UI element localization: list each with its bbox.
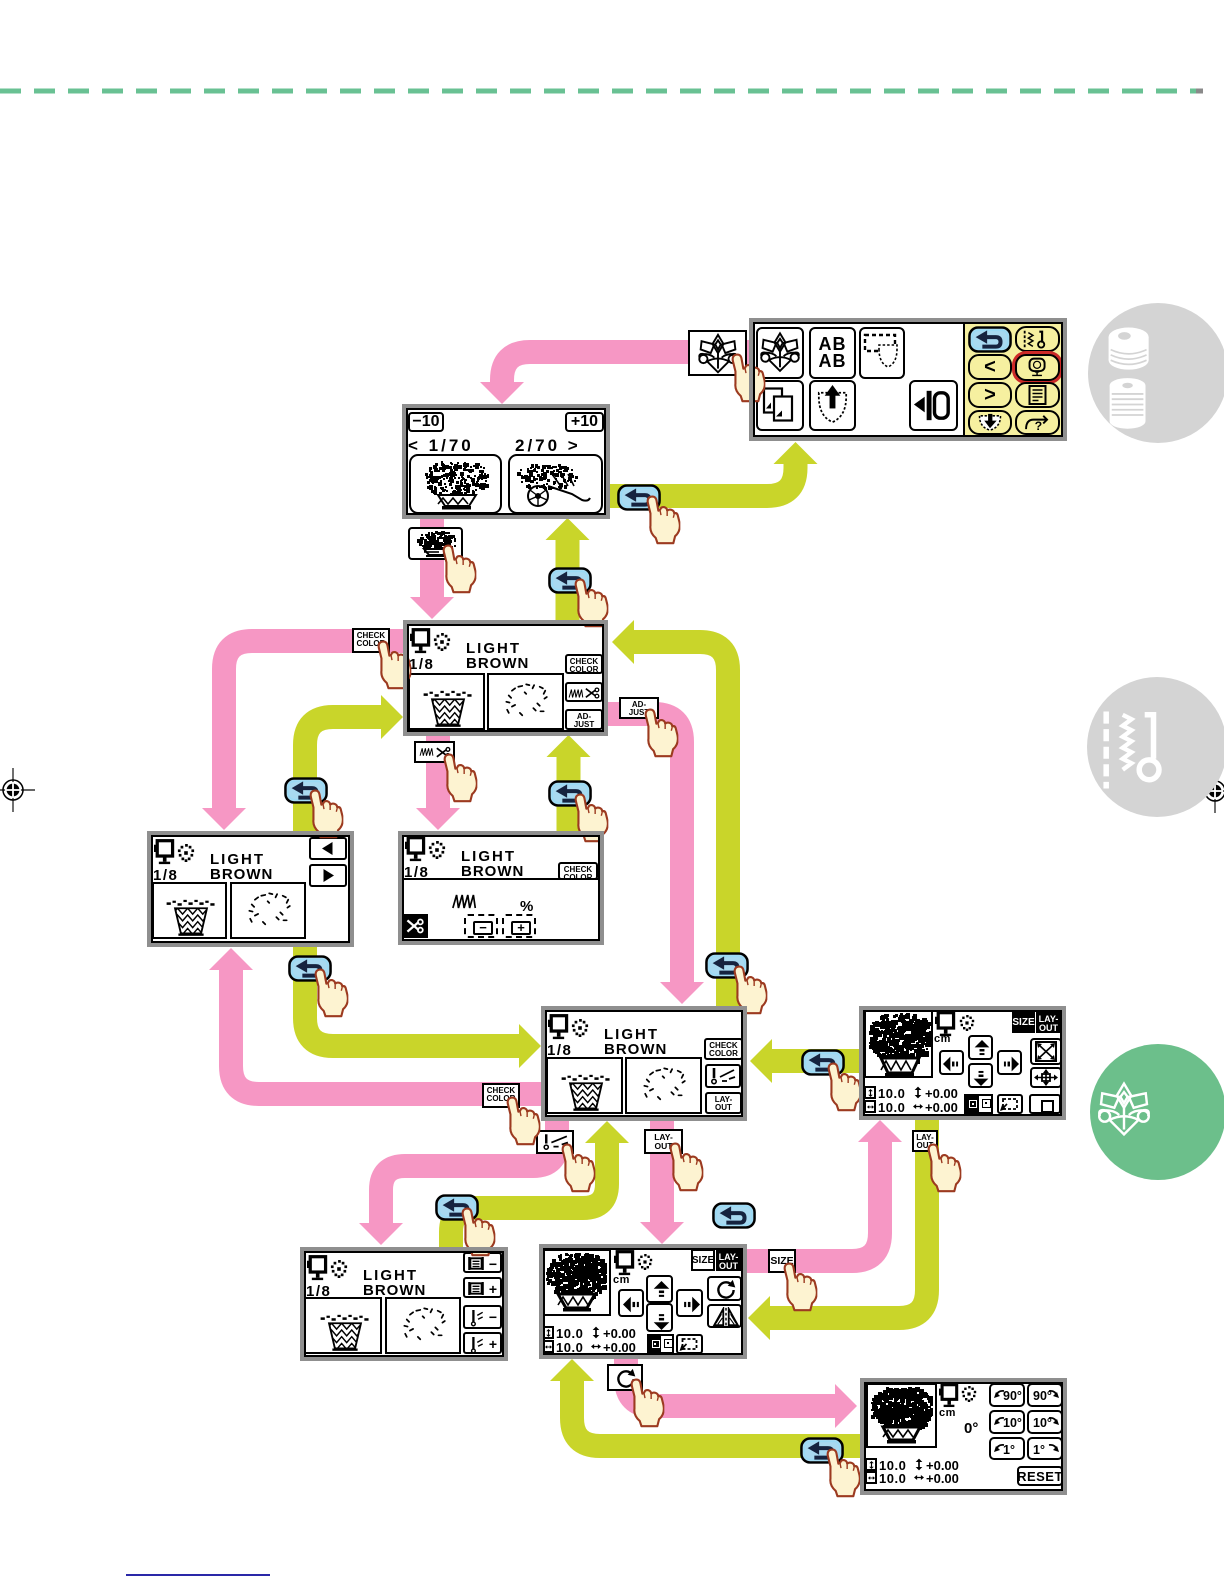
arrow press layout layoutcolor-to-layout bbox=[640, 1119, 684, 1244]
arrow press trim color-to-trim bbox=[416, 734, 460, 830]
arrow back move-to-layoutcolor bbox=[750, 1039, 861, 1083]
thumb layout small bbox=[912, 1130, 938, 1152]
btn check color (lower) bbox=[482, 1083, 520, 1108]
thumb basket bbox=[408, 527, 463, 560]
arrow back colorlist-to-layoutcolor bbox=[305, 945, 541, 1068]
btn size bbox=[768, 1249, 796, 1273]
thumb lotus bbox=[688, 330, 747, 376]
arrow back density-to-layoutcolor bbox=[451, 1121, 629, 1249]
screen color-layout bbox=[541, 1006, 747, 1121]
screen trim bbox=[398, 831, 604, 945]
arrow press checkcolor color-to-list bbox=[202, 641, 405, 830]
thumb layout bbox=[644, 1129, 683, 1154]
screen menu bbox=[749, 318, 1067, 441]
back button at 800,1437 bbox=[800, 1437, 844, 1464]
screen color bbox=[403, 620, 608, 736]
arrow press pattern-thumb menu-to-pattern bbox=[480, 352, 752, 404]
thumb rotate bbox=[607, 1364, 643, 1391]
screen density bbox=[300, 1247, 508, 1361]
arrow press needle layoutcolor-to-density bbox=[359, 1119, 557, 1245]
arrow back rotate-to-layout bbox=[550, 1359, 862, 1446]
arrow back colorlist-to-color bbox=[305, 695, 403, 833]
back button at 435,1194 bbox=[435, 1194, 479, 1221]
arrow back size-to-layout bbox=[748, 1118, 927, 1340]
arrow press basket pattern-to-color bbox=[410, 517, 454, 619]
back button at 617,484 bbox=[617, 484, 661, 511]
thumb needle bbox=[536, 1130, 574, 1154]
back button at 801,1049 bbox=[801, 1049, 845, 1076]
arrow back trim-to-color bbox=[547, 735, 591, 833]
screen pattern-select bbox=[402, 404, 610, 519]
arrow back pattern-to-menu bbox=[610, 442, 818, 496]
btn adjust bbox=[619, 697, 659, 719]
screen layout bbox=[539, 1244, 747, 1359]
back button at 548,567 bbox=[548, 567, 592, 594]
back button at 548,780 bbox=[548, 780, 592, 807]
thumb trim bbox=[414, 741, 455, 763]
back button at 284,777 bbox=[284, 777, 328, 804]
back button at 288,955 bbox=[288, 955, 332, 982]
arrow press checkcolor layoutcolor-to-list bbox=[209, 948, 543, 1094]
screen color-list bbox=[147, 831, 354, 947]
arrow press rotate layout-to-rotate bbox=[626, 1357, 857, 1428]
arrow press adjust color-to-layoutcolor bbox=[606, 714, 704, 1004]
arrow back layoutcolor-to-color bbox=[612, 620, 728, 1008]
screen rotate bbox=[860, 1378, 1067, 1495]
screen move bbox=[859, 1006, 1066, 1120]
arrow back color-to-pattern bbox=[546, 518, 590, 622]
back button at 705,952 bbox=[705, 952, 749, 979]
back button at 712,1202 bbox=[712, 1202, 756, 1229]
btn check color (top) bbox=[352, 628, 390, 653]
arrow press size layout-to-move bbox=[745, 1120, 902, 1261]
